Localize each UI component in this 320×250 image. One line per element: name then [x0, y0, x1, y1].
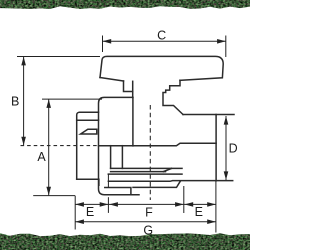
svg-text:E: E — [86, 205, 94, 219]
E2 arrowhead right — [207, 202, 216, 207]
svg-text:C: C — [157, 29, 166, 43]
stem column left edge — [132, 81, 134, 97]
E2 arrowhead left — [185, 202, 194, 207]
G arrowhead right — [207, 219, 216, 224]
C extension tick right — [225, 36, 227, 58]
socket right edge — [215, 115, 217, 181]
union lower line 3 — [108, 173, 182, 175]
svg-text:B: B — [11, 94, 19, 108]
union nut right edge — [132, 97, 134, 145]
EFG right extension tick — [215, 181, 217, 233]
C dimension line — [103, 40, 226, 42]
top photo-edge green noise strip — [0, 0, 250, 9]
handle underside left — [100, 78, 124, 82]
pipe stub left edge — [77, 112, 80, 179]
E F E dimension line — [75, 203, 216, 205]
B arrowhead up — [21, 57, 26, 66]
D arrowhead down — [224, 171, 229, 180]
handle tab — [124, 81, 133, 92]
handle outline — [100, 56, 223, 80]
pipe stub top edge — [80, 111, 99, 113]
EFG left extension tick — [74, 196, 76, 230]
E-F boundary tick lower — [107, 197, 109, 213]
A bottom extension line — [33, 195, 75, 197]
F arrowhead left — [109, 202, 118, 207]
E1 arrowhead right — [100, 202, 109, 207]
socket top edge with D extension — [183, 114, 234, 116]
pipe stub thread line — [77, 119, 99, 121]
union sleeve chamfer diagonal — [163, 168, 171, 171]
B extension line — [17, 56, 100, 58]
union throat vertical right — [121, 146, 123, 169]
pipe stub wedge — [81, 129, 97, 134]
D dimension line — [225, 116, 227, 180]
A top extension line — [42, 98, 102, 100]
D arrowhead up — [224, 116, 229, 125]
body seam line — [99, 143, 217, 145]
union nut outline — [99, 97, 140, 194]
E1 arrowhead left — [75, 202, 84, 207]
E-F boundary tick upper — [107, 174, 109, 188]
svg-text:D: D — [229, 141, 238, 155]
svg-text:F: F — [145, 206, 153, 220]
A dimension line — [48, 99, 50, 195]
G dimension line — [75, 221, 216, 223]
svg-text:G: G — [143, 224, 153, 238]
pipe stub bottom edge — [77, 179, 99, 185]
union lower line 1 — [111, 167, 182, 169]
F arrowhead right — [175, 202, 184, 207]
union throat vertical left — [110, 146, 112, 169]
C extension tick left — [102, 36, 104, 53]
A arrowhead down — [46, 187, 51, 196]
B dimension line — [23, 57, 25, 145]
C arrowhead left — [103, 39, 112, 44]
horizontal centerline dashed — [21, 145, 99, 147]
F-E boundary tick — [183, 186, 185, 213]
nut inner lower line — [105, 188, 131, 195]
A arrowhead up — [46, 99, 51, 108]
handle lever steps — [163, 80, 183, 114]
svg-text:E: E — [195, 205, 203, 219]
G arrowhead left — [75, 219, 84, 224]
union lower line 2 — [111, 171, 166, 173]
bottom photo-edge green noise strip — [0, 233, 250, 250]
svg-text:A: A — [37, 150, 46, 164]
body lower step line — [133, 181, 180, 187]
body bottom edge — [108, 180, 232, 183]
C arrowhead right — [217, 39, 226, 44]
B arrowhead down — [21, 137, 26, 146]
vertical stem centerline dashed — [149, 105, 151, 200]
